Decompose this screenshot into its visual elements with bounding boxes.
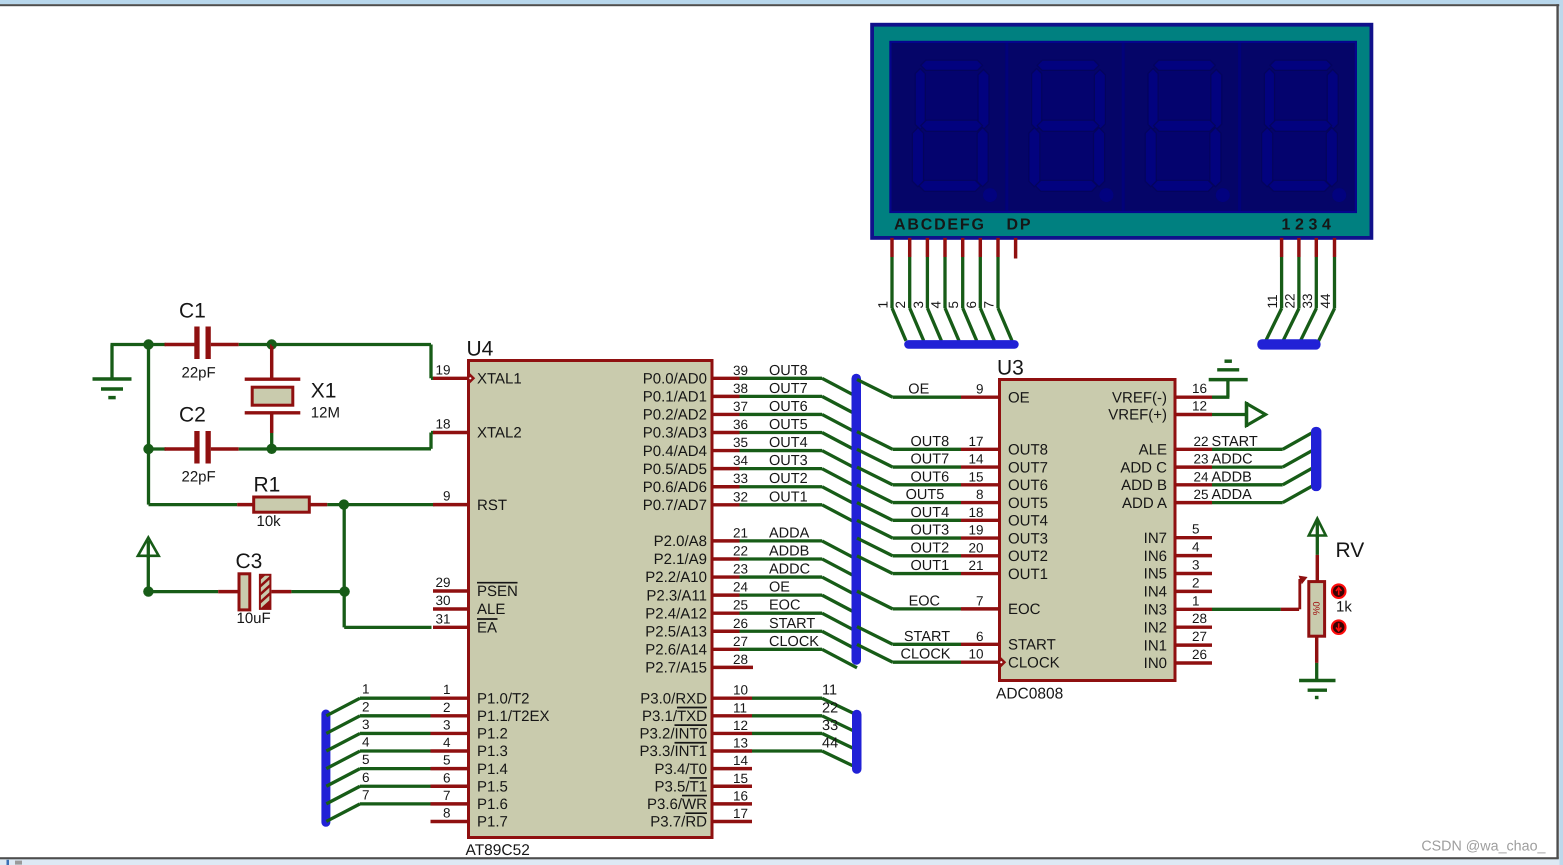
- display pin D wire to segment bus (net 4): [929, 238, 960, 341]
- svg-text:26: 26: [733, 616, 748, 631]
- svg-text:1234: 1234: [1282, 217, 1336, 234]
- svg-text:P0.4/AD4: P0.4/AD4: [643, 443, 707, 460]
- U4 pin 31 EA (stub + number + name): [433, 611, 498, 636]
- wire P1.2 to bus (net 3): [326, 717, 430, 751]
- svg-text:ADDA: ADDA: [769, 525, 810, 541]
- U3 pin 9 OE (wire from bus, net OE): [857, 379, 1030, 406]
- svg-text:25: 25: [733, 598, 748, 613]
- svg-text:OUT8: OUT8: [769, 363, 808, 379]
- svg-text:OUT5: OUT5: [769, 417, 808, 433]
- wire vertical node A to node C (C2 row): [147, 345, 150, 450]
- power symbol VCC (above C3): [138, 538, 159, 592]
- svg-text:OUT4: OUT4: [1008, 513, 1048, 530]
- U3 pin 28 IN2: [1144, 611, 1212, 636]
- svg-text:22: 22: [1282, 293, 1297, 308]
- svg-text:2: 2: [893, 301, 908, 309]
- U3 pin 22 ALE -> net START (to address bus): [1139, 431, 1315, 458]
- U3 pin 2 IN4: [1144, 575, 1212, 600]
- svg-text:5: 5: [443, 753, 451, 768]
- U3 pin 3 IN5: [1144, 558, 1212, 583]
- svg-text:22: 22: [733, 543, 748, 558]
- svg-text:OUT6: OUT6: [911, 469, 950, 485]
- svg-text:C1: C1: [179, 300, 206, 323]
- svg-text:START: START: [1008, 637, 1056, 654]
- svg-text:9: 9: [976, 382, 984, 397]
- svg-text:P3.1/TXD: P3.1/TXD: [642, 708, 707, 725]
- svg-text:31: 31: [435, 611, 450, 626]
- U3 pin 7 EOC (wire from bus, net EOC): [857, 591, 1041, 618]
- svg-text:10: 10: [733, 683, 748, 698]
- svg-text:12M: 12M: [311, 405, 340, 422]
- svg-text:12: 12: [1192, 399, 1207, 414]
- svg-text:22pF: 22pF: [182, 365, 216, 382]
- label R1: [254, 474, 281, 497]
- svg-text:22: 22: [822, 700, 838, 716]
- wire node B to U4 pin 19 (XTAL1): [272, 345, 435, 379]
- svg-text:17: 17: [733, 806, 748, 821]
- svg-text:33: 33: [822, 718, 838, 734]
- crystal X1: [245, 345, 301, 449]
- svg-text:33: 33: [1300, 293, 1315, 308]
- svg-text:36: 36: [733, 417, 748, 432]
- U3 pin 6 START (wire from bus, net START): [857, 627, 1056, 654]
- svg-text:7: 7: [982, 301, 997, 309]
- label ADC0808: [996, 686, 1063, 703]
- svg-text:P2.4/A12: P2.4/A12: [645, 605, 707, 622]
- U4 pin 26 P2.5/A13 -> net START: [645, 616, 857, 650]
- svg-text:OUT4: OUT4: [911, 505, 950, 521]
- svg-text:ADDC: ADDC: [1212, 452, 1253, 468]
- svg-text:1: 1: [1192, 593, 1200, 608]
- svg-text:P1.0/T2: P1.0/T2: [477, 690, 530, 707]
- svg-text:XTAL2: XTAL2: [477, 425, 522, 442]
- svg-text:11: 11: [822, 683, 837, 699]
- svg-text:IN3: IN3: [1144, 602, 1167, 619]
- svg-text:16: 16: [733, 788, 748, 803]
- capacitor C1: [149, 327, 272, 360]
- U3 pin 5 IN7: [1144, 522, 1212, 547]
- U4 pin 11 P3.1/TXD -> net 22: [642, 700, 856, 732]
- U4 pin 27 P2.6/A14 -> net CLOCK: [645, 634, 857, 668]
- svg-text:P2.6/A14: P2.6/A14: [645, 642, 707, 659]
- svg-text:3: 3: [362, 717, 370, 732]
- svg-text:26: 26: [1192, 647, 1207, 662]
- svg-text:OUT7: OUT7: [769, 381, 808, 397]
- svg-text:ADD B: ADD B: [1121, 477, 1167, 494]
- svg-text:P1.7: P1.7: [477, 814, 508, 831]
- RV wiper arrow: [1299, 576, 1308, 610]
- U4 pin 33 P0.6/AD6 -> net OUT2: [643, 471, 857, 505]
- svg-text:P0.6/AD6: P0.6/AD6: [643, 479, 707, 496]
- svg-text:ADDB: ADDB: [769, 543, 809, 559]
- label AT89C52: [466, 842, 530, 859]
- RV adjust down annotation (red circle arrow): [1332, 620, 1346, 634]
- U4 pin 15 P3.5/T1: [654, 771, 752, 796]
- svg-text:29: 29: [435, 575, 450, 590]
- U4 pin 22 P2.1/A9 -> net ADDB: [654, 543, 857, 577]
- U4 pin 5 P1.4 (stub + number + name): [431, 753, 508, 778]
- svg-text:P1.3: P1.3: [477, 743, 508, 760]
- svg-text:P0.1/AD1: P0.1/AD1: [643, 389, 707, 406]
- bus (segment bus below display, horizontal): [904, 340, 1019, 349]
- svg-text:19: 19: [968, 523, 983, 538]
- svg-text:27: 27: [1192, 629, 1207, 644]
- junction node E (R1 / RST / vertical to C3): [339, 499, 349, 509]
- value 1k (RV): [1336, 599, 1352, 616]
- U3 pin 4 IN6: [1144, 540, 1212, 565]
- svg-text:P0.5/AD5: P0.5/AD5: [643, 461, 707, 478]
- svg-text:8: 8: [443, 805, 451, 820]
- svg-text:X1: X1: [311, 380, 337, 403]
- svg-text:VREF(-): VREF(-): [1112, 389, 1167, 406]
- svg-text:IN5: IN5: [1144, 566, 1167, 583]
- svg-text:OUT7: OUT7: [911, 452, 950, 468]
- U4 pin 4 P1.3 (stub + number + name): [431, 735, 508, 760]
- svg-text:32: 32: [733, 489, 748, 504]
- svg-text:8: 8: [976, 487, 984, 502]
- label RV: [1336, 539, 1365, 562]
- label X1: [311, 380, 337, 403]
- svg-text:P3.6/WR: P3.6/WR: [647, 796, 707, 813]
- svg-text:RST: RST: [477, 497, 507, 514]
- svg-text:2: 2: [443, 700, 451, 715]
- display digit 1 segments: [912, 60, 997, 202]
- U4 pin 6 P1.5 (stub + number + name): [431, 770, 508, 795]
- U4 pin 38 P0.1/AD1 -> net OUT7: [643, 381, 857, 415]
- wire node D to U4 pin 18 (XTAL2): [272, 433, 435, 449]
- svg-text:2: 2: [1192, 575, 1200, 590]
- svg-text:20: 20: [968, 540, 983, 555]
- U4 pin 3 P1.2 (stub + number + name): [431, 717, 508, 742]
- U4 pin 25 P2.4/A12 -> net EOC: [645, 598, 857, 632]
- svg-text:37: 37: [733, 399, 748, 414]
- svg-text:0%: 0%: [1310, 602, 1321, 616]
- svg-text:OUT2: OUT2: [769, 471, 808, 487]
- svg-text:OUT2: OUT2: [911, 540, 950, 556]
- display digit common pin 1 wire (net 11): [1265, 238, 1282, 343]
- svg-text:21: 21: [733, 525, 748, 540]
- bus (main vertical data bus between U4 and U3): [852, 374, 862, 665]
- svg-text:2: 2: [362, 699, 370, 714]
- svg-text:22: 22: [1193, 434, 1208, 449]
- svg-text:START: START: [904, 629, 950, 645]
- U4 pin 19 XTAL1 (stub + number + name): [433, 362, 522, 387]
- svg-text:OE: OE: [769, 580, 790, 596]
- ground symbol (left of C1): [93, 345, 132, 398]
- wire P1.1 to bus (net 2): [326, 699, 430, 733]
- ground symbol (VREF- net): [1209, 361, 1248, 379]
- U4 pin 23 P2.2/A10 -> net ADDC: [645, 562, 857, 596]
- svg-text:ABCDEFG: ABCDEFG: [894, 217, 986, 234]
- svg-text:IN4: IN4: [1144, 584, 1167, 601]
- IC U4 AT89C52 body: [469, 361, 713, 838]
- display pin DP stub (unconnected): [1014, 238, 1017, 259]
- U4 pin 21 P2.0/A8 -> net ADDA: [654, 525, 857, 559]
- svg-text:IN6: IN6: [1144, 548, 1167, 565]
- svg-text:ADD A: ADD A: [1122, 495, 1167, 512]
- svg-text:P0.7/AD7: P0.7/AD7: [643, 497, 707, 514]
- svg-text:14: 14: [968, 452, 984, 467]
- svg-text:39: 39: [733, 363, 748, 378]
- U4 pin 17 P3.7/RD: [650, 806, 752, 831]
- svg-text:P3.5/T1: P3.5/T1: [654, 778, 707, 795]
- svg-text:1: 1: [876, 301, 891, 309]
- svg-text:6: 6: [443, 770, 451, 785]
- svg-text:10uF: 10uF: [237, 610, 271, 627]
- svg-text:28: 28: [1192, 611, 1207, 626]
- svg-text:C3: C3: [236, 550, 263, 573]
- svg-text:11: 11: [733, 700, 747, 715]
- svg-text:16: 16: [1192, 381, 1207, 396]
- svg-text:VREF(+): VREF(+): [1108, 407, 1167, 424]
- display digit common pin 3 wire (net 33): [1299, 238, 1316, 343]
- power symbol VCC (above RV): [1309, 519, 1326, 538]
- wire P1.3 to bus (net 4): [326, 735, 430, 769]
- U3 pin 19 OUT3 (wire from bus, net OUT3): [857, 520, 1048, 547]
- svg-text:OE: OE: [1008, 389, 1030, 406]
- svg-text:14: 14: [733, 753, 749, 768]
- capacitor C3 (electrolytic): [148, 552, 344, 612]
- junction node C (C2 / vertical from node A): [143, 444, 153, 454]
- bus (P3.0-P3.3 short vertical bus): [852, 710, 862, 774]
- label C2: [179, 404, 206, 427]
- svg-text:7: 7: [443, 788, 451, 803]
- svg-text:ADDB: ADDB: [1212, 469, 1252, 485]
- svg-text:23: 23: [733, 562, 748, 577]
- svg-text:30: 30: [435, 593, 450, 608]
- svg-text:XTAL1: XTAL1: [477, 371, 522, 388]
- svg-text:ADC0808: ADC0808: [996, 686, 1063, 703]
- value 10k (R1): [257, 513, 282, 530]
- svg-text:IN1: IN1: [1144, 637, 1167, 654]
- ground symbol (below RV): [1299, 681, 1335, 698]
- svg-text:28: 28: [733, 652, 748, 667]
- wire node E through node G to U4 pin 31 (EA): [344, 505, 431, 628]
- U4 pin 16 P3.6/WR: [647, 788, 752, 813]
- svg-text:6: 6: [964, 301, 979, 309]
- svg-text:P1.6: P1.6: [477, 796, 508, 813]
- wire power to RV top: [1316, 536, 1319, 583]
- U3 pin 27 IN1: [1144, 629, 1212, 654]
- svg-text:P3.4/T0: P3.4/T0: [654, 761, 707, 778]
- svg-text:IN2: IN2: [1144, 619, 1167, 636]
- value 22pF (C1): [182, 365, 216, 382]
- U3 pin 8 OUT5 (wire from bus, net OUT5): [857, 485, 1048, 512]
- potentiometer RV body: [1309, 582, 1325, 637]
- svg-text:P3.3/INT1: P3.3/INT1: [639, 743, 707, 760]
- U3 pin 24 ADD B -> net ADDB (to address bus): [1121, 467, 1315, 494]
- wire node C down to resistor R1 row: [149, 449, 238, 505]
- svg-text:P2.7/A15: P2.7/A15: [645, 660, 707, 677]
- svg-text:10: 10: [968, 647, 983, 662]
- U3 pin 21 OUT1 (wire from bus, net OUT1): [857, 556, 1048, 583]
- power symbol (VREF+ arrow): [1247, 402, 1266, 427]
- display pin C wire to segment bus (net 3): [911, 238, 942, 341]
- display pin A wire to segment bus (net 1): [876, 238, 907, 341]
- svg-text:17: 17: [968, 434, 983, 449]
- value 12M (X1): [311, 405, 340, 422]
- svg-text:ALE: ALE: [1139, 442, 1167, 459]
- svg-text:3: 3: [1192, 558, 1200, 573]
- svg-text:CLOCK: CLOCK: [769, 634, 819, 650]
- U4 pin 7 P1.6 (stub + number + name): [431, 788, 508, 813]
- display digit common pin 4 wire (net 44): [1318, 238, 1335, 343]
- U3 pin 1 IN3: [1144, 593, 1212, 618]
- label U3: [997, 357, 1024, 380]
- svg-text:EA: EA: [477, 620, 497, 637]
- svg-text:OUT4: OUT4: [769, 435, 808, 451]
- svg-text:OUT6: OUT6: [769, 399, 808, 415]
- U4 pin 24 P2.3/A11 -> net OE: [646, 580, 857, 614]
- U4 pin 18 XTAL2 (stub + number + name): [433, 417, 522, 442]
- svg-text:P3.2/INT0: P3.2/INT0: [639, 726, 707, 743]
- svg-text:P0.3/AD3: P0.3/AD3: [643, 425, 707, 442]
- svg-text:CSDN @wa_chao_: CSDN @wa_chao_: [1421, 839, 1546, 855]
- svg-text:3: 3: [911, 301, 926, 309]
- display pin F wire to segment bus (net 6): [964, 238, 995, 341]
- svg-text:6: 6: [976, 629, 984, 644]
- svg-text:22pF: 22pF: [182, 469, 216, 486]
- svg-text:U4: U4: [467, 338, 494, 361]
- U3 pin 12 VREF(+) to power arrow: [1108, 399, 1246, 424]
- svg-text:R1: R1: [254, 474, 281, 497]
- svg-text:P2.5/A13: P2.5/A13: [645, 623, 707, 640]
- display LED1 4-digit 7-segment module body: [872, 25, 1371, 238]
- svg-text:7: 7: [976, 593, 984, 608]
- svg-text:OUT3: OUT3: [1008, 530, 1048, 547]
- svg-text:1: 1: [443, 682, 451, 697]
- svg-text:5: 5: [1192, 522, 1200, 537]
- svg-text:38: 38: [733, 381, 748, 396]
- U4 pin 14 P3.4/T0: [654, 753, 752, 778]
- svg-text:44: 44: [1318, 293, 1333, 309]
- U3 pin 17 OUT8 (wire from bus, net OUT8): [857, 432, 1048, 459]
- svg-text:IN0: IN0: [1144, 655, 1167, 672]
- svg-text:23: 23: [1193, 452, 1208, 467]
- svg-text:5: 5: [946, 301, 961, 309]
- svg-text:1k: 1k: [1336, 599, 1352, 616]
- svg-text:EOC: EOC: [769, 598, 800, 614]
- value 10uF (C3): [237, 610, 271, 627]
- svg-text:OUT2: OUT2: [1008, 548, 1048, 565]
- svg-text:44: 44: [822, 736, 838, 752]
- display segment pin letters A-G DP: [894, 217, 1032, 234]
- junction node A (C1 / ground / vertical): [143, 339, 153, 349]
- svg-text:EOC: EOC: [909, 593, 940, 609]
- U4 pin 28 P2.7/A15 (unconnected): [645, 652, 753, 677]
- svg-text:C2: C2: [179, 404, 206, 427]
- svg-text:U3: U3: [997, 357, 1024, 380]
- svg-text:P1.2: P1.2: [477, 726, 508, 743]
- U4 pin 2 P1.1/T2EX (stub + number + name): [431, 700, 550, 725]
- display digit 4 segments: [1262, 60, 1347, 202]
- svg-text:4: 4: [1192, 540, 1200, 555]
- svg-text:ADDA: ADDA: [1212, 487, 1253, 503]
- RV adjust up annotation (red circle arrow): [1332, 584, 1346, 598]
- U3 pin 15 OUT6 (wire from bus, net OUT6): [857, 467, 1048, 494]
- U3 pin 10 CLOCK (wire from bus, net CLOCK): [857, 644, 1060, 671]
- svg-text:AT89C52: AT89C52: [466, 842, 530, 859]
- svg-text:RV: RV: [1336, 539, 1365, 562]
- display pin B wire to segment bus (net 2): [893, 238, 924, 341]
- svg-text:ALE: ALE: [477, 601, 505, 618]
- svg-text:DP: DP: [1007, 217, 1033, 234]
- bus (P1.0-P1.7 vertical bus, bottom-left): [321, 710, 330, 827]
- svg-text:13: 13: [733, 736, 748, 751]
- svg-text:4: 4: [362, 735, 370, 750]
- svg-text:11: 11: [1265, 294, 1280, 308]
- wire U3 IN3 to potentiometer RV wiper: [1212, 608, 1299, 611]
- U4 pin 37 P0.2/AD2 -> net OUT6: [643, 399, 857, 433]
- U4 pin 10 P3.0/RXD -> net 11: [640, 683, 855, 715]
- svg-text:27: 27: [733, 634, 748, 649]
- svg-text:P3.0/RXD: P3.0/RXD: [640, 690, 707, 707]
- svg-text:OUT3: OUT3: [911, 523, 950, 539]
- U4 pin 35 P0.4/AD4 -> net OUT4: [643, 435, 857, 469]
- svg-text:ADD C: ADD C: [1120, 459, 1167, 476]
- display digit pin numbers 1 2 3 4: [1282, 217, 1336, 234]
- svg-text:24: 24: [733, 580, 749, 595]
- wire P1.4 to bus (net 5): [326, 752, 430, 786]
- value 22pF (C2): [182, 469, 216, 486]
- svg-text:OUT1: OUT1: [1008, 566, 1048, 583]
- svg-text:10k: 10k: [257, 513, 282, 530]
- U3 pin 16 VREF(-) to ground: [1112, 380, 1229, 407]
- svg-text:P0.2/AD2: P0.2/AD2: [643, 407, 707, 424]
- svg-text:15: 15: [733, 771, 748, 786]
- svg-text:4: 4: [443, 735, 451, 750]
- svg-text:OUT3: OUT3: [769, 453, 808, 469]
- wire P1.5 to bus (net 6): [326, 770, 430, 804]
- U4 pin 12 P3.2/INT0 -> net 33: [639, 718, 855, 750]
- display pin G wire to segment bus (net 7): [982, 238, 1013, 341]
- U4 pin 13 P3.3/INT1 -> net 44: [639, 736, 855, 768]
- U3 pin 14 OUT7 (wire from bus, net OUT7): [857, 449, 1048, 476]
- svg-text:START: START: [1212, 434, 1258, 450]
- svg-text:18: 18: [968, 505, 983, 520]
- svg-text:OUT5: OUT5: [906, 487, 945, 503]
- svg-text:12: 12: [733, 718, 748, 733]
- svg-text:19: 19: [435, 362, 450, 377]
- svg-text:3: 3: [443, 717, 451, 732]
- IC U3 ADC0808 body: [1000, 380, 1176, 681]
- junction node D (C2 / X1 bottom / wire to pin 18): [267, 444, 277, 454]
- display digit 2 segments: [1029, 60, 1114, 202]
- bus (digit-select bus below display, horizontal): [1257, 339, 1320, 349]
- svg-text:ADDC: ADDC: [769, 562, 810, 578]
- svg-text:OE: OE: [908, 382, 929, 398]
- U4 pin 32 P0.7/AD7 -> net OUT1: [643, 489, 857, 523]
- U3 pin 18 OUT4 (wire from bus, net OUT4): [857, 503, 1048, 530]
- svg-text:P0.0/AD0: P0.0/AD0: [643, 371, 707, 388]
- U4 pin 9 RST (stub + number + name): [433, 489, 507, 514]
- svg-text:P2.0/A8: P2.0/A8: [654, 533, 707, 550]
- label C1: [179, 300, 206, 323]
- U4 pin 34 P0.5/AD5 -> net OUT3: [643, 453, 857, 487]
- capacitor C2: [149, 431, 272, 464]
- display digit 3 segments: [1145, 60, 1230, 202]
- svg-text:OUT7: OUT7: [1008, 459, 1048, 476]
- display digit common pin 2 wire (net 22): [1282, 238, 1299, 343]
- svg-text:9: 9: [443, 489, 451, 504]
- U4 pin 8 P1.7 (stub + number + name): [431, 805, 508, 830]
- bus (ALE/ADDC/ADDB/ADDA vertical bus, right): [1311, 427, 1321, 491]
- svg-text:4: 4: [929, 301, 944, 309]
- svg-text:6: 6: [362, 770, 370, 785]
- svg-text:P2.1/A9: P2.1/A9: [654, 551, 707, 568]
- wire RV bottom to ground: [1315, 636, 1318, 679]
- U3 pin 26 IN0: [1144, 647, 1212, 672]
